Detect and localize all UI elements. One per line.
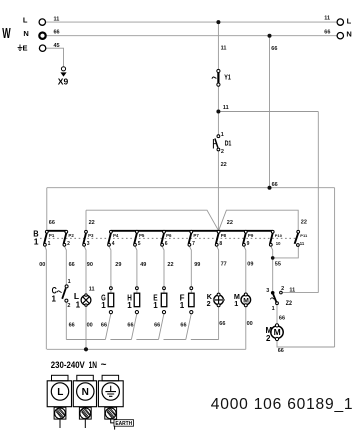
svg-text:00: 00 — [247, 321, 253, 327]
svg-text:Z2: Z2 — [286, 300, 293, 307]
svg-text:1: 1 — [48, 241, 51, 247]
svg-text:2: 2 — [67, 303, 70, 309]
svg-text:1: 1 — [234, 299, 238, 308]
svg-text:P5: P5 — [139, 233, 145, 238]
svg-text:66: 66 — [180, 322, 186, 328]
svg-text:~: ~ — [101, 360, 107, 371]
svg-text:EARTH: EARTH — [115, 421, 132, 427]
svg-text:P2: P2 — [68, 233, 74, 238]
svg-text:1: 1 — [76, 301, 81, 310]
svg-text:2: 2 — [221, 149, 224, 155]
svg-text:2: 2 — [207, 299, 211, 308]
svg-text:P3: P3 — [88, 233, 94, 238]
svg-text:D1: D1 — [225, 139, 232, 148]
svg-text:66: 66 — [219, 321, 225, 327]
svg-text:L: L — [57, 387, 63, 398]
svg-text:N: N — [23, 29, 28, 38]
svg-text:66: 66 — [69, 322, 75, 328]
svg-text:7: 7 — [192, 241, 195, 247]
svg-text:49: 49 — [140, 262, 146, 268]
svg-text:66: 66 — [324, 29, 330, 35]
svg-text:6: 6 — [165, 241, 168, 247]
svg-text:4: 4 — [112, 241, 115, 247]
svg-text:10: 10 — [276, 241, 281, 246]
svg-text:99: 99 — [194, 262, 200, 268]
svg-text:11: 11 — [223, 105, 229, 111]
svg-text:N: N — [346, 30, 351, 39]
svg-text:P4: P4 — [113, 233, 119, 238]
svg-text:8: 8 — [219, 241, 222, 247]
svg-text:5: 5 — [138, 241, 141, 247]
svg-text:66: 66 — [272, 182, 278, 188]
svg-text:3: 3 — [266, 288, 269, 294]
svg-text:1: 1 — [101, 301, 106, 310]
svg-text:00: 00 — [87, 322, 93, 328]
svg-text:00: 00 — [39, 262, 45, 268]
svg-text:66: 66 — [54, 30, 60, 36]
svg-text:11: 11 — [300, 241, 305, 246]
svg-text:29: 29 — [115, 262, 121, 268]
svg-text:45: 45 — [54, 43, 60, 49]
svg-text:66: 66 — [271, 46, 277, 52]
svg-text:66: 66 — [101, 322, 107, 328]
svg-text:P10: P10 — [275, 233, 283, 238]
svg-text:P9: P9 — [248, 233, 254, 238]
svg-text:66: 66 — [278, 348, 284, 354]
svg-text:2: 2 — [67, 241, 70, 247]
svg-text:1: 1 — [52, 295, 57, 304]
svg-text:22: 22 — [227, 220, 233, 226]
svg-text:1: 1 — [68, 279, 71, 285]
svg-text:P6: P6 — [166, 233, 172, 238]
svg-text:X9: X9 — [58, 76, 69, 86]
svg-text:P1: P1 — [49, 233, 55, 238]
svg-text:M: M — [274, 327, 281, 337]
svg-text:66: 66 — [49, 220, 55, 226]
svg-text:3: 3 — [87, 241, 90, 247]
svg-text:2: 2 — [281, 286, 284, 292]
svg-text:66: 66 — [69, 262, 75, 268]
svg-text:1: 1 — [180, 301, 185, 310]
svg-text:L: L — [23, 15, 28, 24]
svg-text:66: 66 — [154, 322, 160, 328]
svg-text:22: 22 — [221, 162, 227, 168]
svg-text:1N: 1N — [89, 360, 97, 370]
svg-text:66: 66 — [279, 316, 285, 322]
svg-text:N: N — [82, 387, 89, 398]
svg-text:P11: P11 — [300, 233, 308, 238]
svg-text:90: 90 — [87, 262, 93, 268]
svg-text:77: 77 — [221, 262, 227, 268]
svg-text:11: 11 — [54, 16, 60, 22]
svg-text:2: 2 — [266, 334, 271, 343]
svg-text:E: E — [23, 43, 28, 52]
svg-text:11: 11 — [324, 16, 330, 22]
svg-text:55: 55 — [275, 262, 281, 268]
svg-text:11: 11 — [221, 45, 227, 51]
svg-text:1: 1 — [153, 301, 158, 310]
svg-text:1: 1 — [127, 301, 132, 310]
svg-text:22: 22 — [167, 262, 173, 268]
svg-text:Y1: Y1 — [224, 73, 231, 82]
svg-text:1: 1 — [34, 236, 39, 246]
svg-text:09: 09 — [247, 262, 253, 268]
svg-text:230-240V: 230-240V — [51, 360, 85, 370]
svg-text:4000 106 60189_1: 4000 106 60189_1 — [211, 396, 354, 413]
svg-text:11: 11 — [289, 287, 295, 293]
svg-text:L: L — [347, 16, 352, 25]
svg-text:W: W — [2, 26, 11, 42]
svg-text:1: 1 — [272, 306, 275, 312]
svg-text:1: 1 — [221, 132, 224, 138]
svg-text:11: 11 — [89, 286, 95, 292]
svg-text:P8: P8 — [221, 233, 227, 238]
svg-text:P7: P7 — [193, 233, 199, 238]
svg-text:22: 22 — [89, 220, 95, 226]
svg-text:9: 9 — [247, 241, 250, 247]
svg-text:M: M — [243, 297, 249, 304]
svg-text:66: 66 — [127, 322, 133, 328]
svg-text:22: 22 — [301, 220, 307, 226]
